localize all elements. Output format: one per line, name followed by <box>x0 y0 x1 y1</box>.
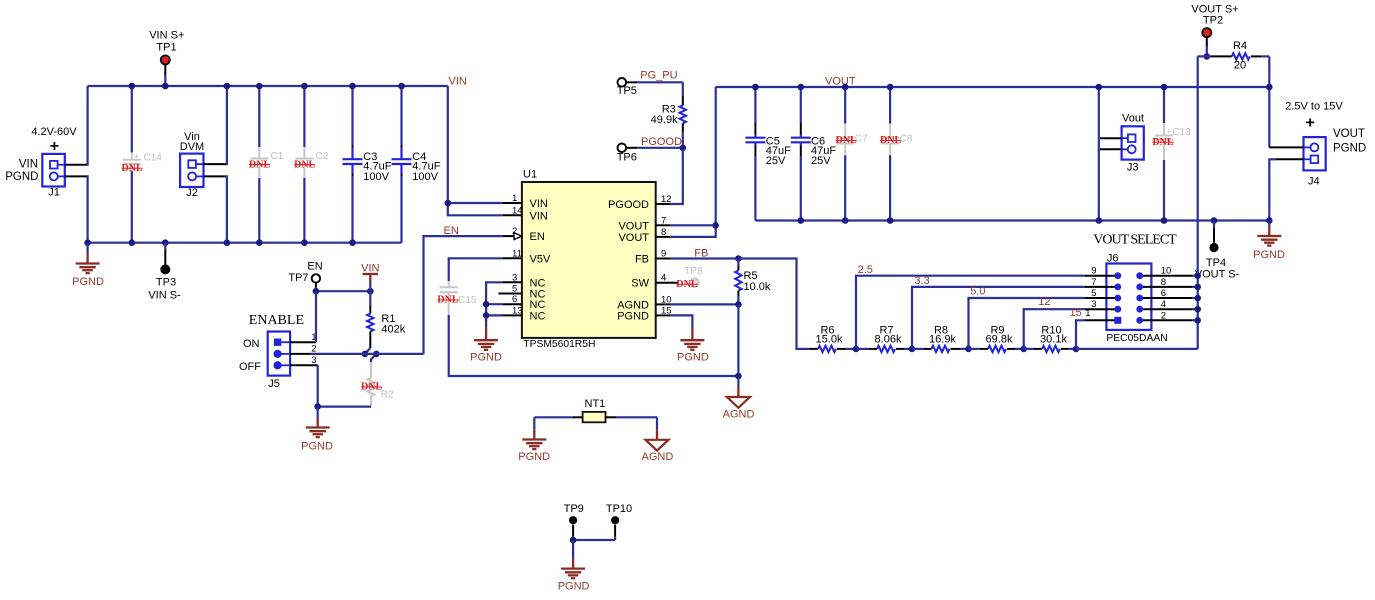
svg-text:J4: J4 <box>1308 175 1320 187</box>
test point TP10 <box>606 503 632 540</box>
svg-text:10.0k: 10.0k <box>744 281 771 293</box>
svg-text:16.9k: 16.9k <box>929 334 956 346</box>
test point TP4 VOUT S- <box>1195 217 1240 281</box>
wire J4 pin1 <box>1269 146 1303 148</box>
svg-text:VIN: VIN <box>530 198 548 210</box>
test point TP3 VIN S- <box>148 239 181 301</box>
J6 pin 7 <box>1085 286 1118 288</box>
wire R5 bottom to AGND rail <box>737 304 739 376</box>
wire R2 jog from EN net <box>371 354 376 362</box>
resistor R3 49.9k <box>651 82 686 148</box>
svg-text:VOUT: VOUT <box>618 232 649 244</box>
U1 pin 5 NC <box>499 293 522 295</box>
svg-text:EN: EN <box>444 225 459 237</box>
svg-text:VOUT SELECT: VOUT SELECT <box>1093 233 1177 248</box>
svg-text:TP10: TP10 <box>606 503 632 515</box>
svg-text:PGND: PGND <box>1333 143 1366 155</box>
ground PGND at U1 pin15 <box>677 328 709 363</box>
resistor R5 10.0k <box>735 259 771 305</box>
wire FB to feedback divider chain <box>738 259 810 349</box>
wire VIN bus drop to U1 <box>448 86 503 215</box>
capacitor C15 (DNL) on V5V <box>437 258 738 376</box>
svg-text:C15: C15 <box>458 295 477 306</box>
svg-text:8: 8 <box>1161 277 1166 288</box>
svg-text:402k: 402k <box>381 323 405 335</box>
svg-text:+: + <box>134 152 139 162</box>
svg-text:1: 1 <box>1085 308 1090 319</box>
resistor R6 15.0k <box>810 325 856 353</box>
resistor R2 (DNL) <box>361 362 394 407</box>
svg-text:8: 8 <box>661 227 666 238</box>
svg-text:Vout: Vout <box>1122 113 1144 125</box>
U1 pin 9 FB <box>656 258 670 260</box>
U1 pin 15 PGND <box>656 314 670 316</box>
svg-text:25V: 25V <box>811 155 831 167</box>
svg-text:2.5: 2.5 <box>858 264 873 276</box>
svg-text:VIN: VIN <box>530 210 548 222</box>
svg-text:7: 7 <box>661 215 666 226</box>
capacitor C13 (DNL) <box>1152 87 1191 221</box>
svg-text:ENABLE: ENABLE <box>249 313 304 328</box>
J6 pin 3 <box>1085 308 1118 310</box>
resistor R9 69.8k <box>969 325 1024 353</box>
wire J3 pin2 to return rail <box>1099 148 1122 150</box>
svg-text:30.1k: 30.1k <box>1040 334 1067 346</box>
svg-text:15: 15 <box>661 305 672 316</box>
svg-text:12: 12 <box>1038 296 1050 308</box>
svg-text:R4: R4 <box>1233 40 1247 52</box>
wire NC pin 6 <box>486 303 502 305</box>
svg-text:PGND: PGND <box>1253 249 1285 261</box>
svg-text:TP2: TP2 <box>1203 15 1223 27</box>
wire J5 pin2 EN line <box>290 353 310 355</box>
svg-text:VOUT: VOUT <box>1333 128 1365 140</box>
J6 pin 1 (square) <box>1085 319 1118 321</box>
svg-text:AGND: AGND <box>642 451 674 463</box>
svg-text:PGND: PGND <box>558 581 590 593</box>
svg-text:VIN S+: VIN S+ <box>149 30 184 42</box>
U1 pin 1 VIN <box>502 202 522 204</box>
capacitor C7 (DNL) <box>836 87 868 221</box>
svg-text:U1: U1 <box>523 169 537 181</box>
wire R1 jog to EN net <box>365 348 370 354</box>
svg-text:DNL: DNL <box>249 159 270 170</box>
svg-text:NC: NC <box>530 310 546 322</box>
power symbol VIN at R1 <box>361 262 379 291</box>
wire VOUT top bus <box>716 86 1270 88</box>
svg-text:7: 7 <box>1091 277 1096 288</box>
svg-text:PGND: PGND <box>5 171 38 183</box>
svg-text:8.06k: 8.06k <box>875 334 902 346</box>
svg-text:9: 9 <box>661 249 666 260</box>
ground AGND at NT1 <box>642 417 674 463</box>
capacitor C6 47uF 25V <box>791 87 837 221</box>
svg-text:13: 13 <box>512 305 523 316</box>
svg-text:DNL: DNL <box>676 279 697 290</box>
svg-text:C1: C1 <box>271 151 284 162</box>
svg-text:TPSM5601R5H: TPSM5601R5H <box>523 339 595 350</box>
svg-text:NC: NC <box>530 277 546 289</box>
svg-text:+: + <box>1306 115 1315 132</box>
wire J2 pin1 to VIN bus <box>204 163 227 165</box>
connector J2 Vin DVM <box>180 131 204 199</box>
connector J4 VOUT/PGND <box>1285 100 1366 187</box>
svg-text:VOUT S-: VOUT S- <box>1195 269 1240 281</box>
wire J1 pin2 to PGND bus <box>65 175 88 177</box>
svg-text:V5V: V5V <box>530 253 551 265</box>
U1 pin 11 V5V <box>502 257 522 259</box>
J6 pin 8 <box>1140 286 1192 288</box>
connector J1 <box>42 154 65 199</box>
capacitor C14 (DNL) <box>122 86 163 243</box>
J6 pin 9 <box>1085 275 1118 277</box>
wire VOUT sense riser (TP2 to J6) <box>1197 56 1199 349</box>
svg-text:9: 9 <box>1091 266 1096 277</box>
capacitor C2 (DNL) <box>294 86 329 243</box>
U1 pin 3 NC <box>502 281 522 283</box>
J6 pin 4 <box>1140 308 1192 310</box>
svg-text:TP6: TP6 <box>617 152 637 164</box>
svg-text:PG_PU: PG_PU <box>640 70 677 82</box>
wire J3 pin1 to VOUT bus <box>1099 137 1122 139</box>
ground PGND at J1 <box>72 243 104 289</box>
test point TP8 (DNL) on SW <box>676 266 703 290</box>
svg-text:PEC05DAAN: PEC05DAAN <box>1106 333 1167 344</box>
svg-text:C13: C13 <box>1172 127 1191 138</box>
test point TP1 VIN S+ <box>149 30 184 86</box>
svg-text:2.5V to 15V: 2.5V to 15V <box>1285 100 1343 112</box>
junction J1 ground <box>84 239 91 246</box>
svg-text:DVM: DVM <box>180 141 204 153</box>
test point TP6 PGOOD <box>617 144 683 164</box>
wire J4 pin2 to return rail <box>1275 158 1304 160</box>
svg-text:NT1: NT1 <box>585 398 606 410</box>
svg-text:3: 3 <box>512 272 517 283</box>
svg-text:PGOOD: PGOOD <box>641 136 682 148</box>
svg-text:5.0: 5.0 <box>970 286 985 298</box>
wire J1 pin1 to VIN bus <box>65 164 88 166</box>
test point TP2 VOUT S+ <box>1191 4 1238 57</box>
svg-text:VOUT: VOUT <box>618 220 649 232</box>
resistor R7 8.06k <box>856 325 912 353</box>
svg-text:TP4: TP4 <box>1206 257 1226 269</box>
svg-text:2: 2 <box>1161 310 1166 321</box>
svg-text:C2: C2 <box>316 151 329 162</box>
J6 pin 10 <box>1140 275 1192 277</box>
svg-text:69.8k: 69.8k <box>986 334 1013 346</box>
svg-text:OFF: OFF <box>239 361 261 373</box>
svg-text:1: 1 <box>512 193 517 204</box>
U1 pin 2 EN with input arrow <box>502 235 514 237</box>
svg-text:+: + <box>1166 127 1171 137</box>
wire R4 right to J4 branch <box>1268 56 1270 147</box>
svg-text:EN: EN <box>530 231 545 243</box>
capacitor C4 4.7uF 100V <box>392 86 441 243</box>
svg-text:PGND: PGND <box>72 276 104 288</box>
wire VIN to U1 pin1 <box>448 202 503 204</box>
svg-text:J3: J3 <box>1127 162 1139 174</box>
ground PGND at J4 <box>1253 221 1285 262</box>
ground PGND at NT1 <box>518 417 550 463</box>
svg-text:DNL: DNL <box>437 295 458 306</box>
svg-text:5: 5 <box>512 284 517 295</box>
resistor R8 16.9k <box>912 325 969 353</box>
svg-text:100V: 100V <box>412 171 438 183</box>
test point TP5 PG_PU <box>617 78 683 97</box>
svg-text:C14: C14 <box>144 152 163 163</box>
svg-text:PGND: PGND <box>518 451 550 463</box>
resistor R4 20 <box>1198 40 1270 72</box>
connector J3 Vout <box>1122 113 1144 174</box>
svg-text:PGND: PGND <box>470 351 502 363</box>
svg-text:TP1: TP1 <box>156 42 176 54</box>
svg-text:VIN: VIN <box>19 159 38 171</box>
svg-text:10: 10 <box>1161 266 1172 277</box>
svg-text:11: 11 <box>512 248 522 259</box>
svg-text:FB: FB <box>635 254 649 266</box>
wire EN riser to U1 pin2 <box>424 236 503 354</box>
svg-text:15.0k: 15.0k <box>816 334 843 346</box>
svg-text:4.2V-60V: 4.2V-60V <box>31 126 77 138</box>
svg-text:TP7: TP7 <box>288 272 308 284</box>
J6 pin 5 <box>1085 297 1118 299</box>
ground PGND at J5 <box>301 407 333 453</box>
svg-text:TP5: TP5 <box>617 85 637 97</box>
svg-text:VIN: VIN <box>361 262 379 274</box>
wire U1 pin8 VOUT <box>670 225 716 237</box>
svg-text:J1: J1 <box>48 187 60 199</box>
svg-text:EN: EN <box>307 260 322 272</box>
wire TP7 node to R1 top <box>316 290 370 292</box>
op-amp substitute: regulator module U1 TPSM5601R5H <box>522 169 656 351</box>
wire TP9-TP10 tie <box>573 539 615 541</box>
capacitor C5 47uF 25V <box>745 87 791 221</box>
node 15 tap <box>1070 307 1086 349</box>
svg-text:TP3: TP3 <box>156 277 176 289</box>
svg-text:25V: 25V <box>766 155 786 167</box>
svg-text:DNL: DNL <box>361 382 382 393</box>
svg-text:C7: C7 <box>855 134 868 145</box>
J6 pin 6 <box>1140 297 1192 299</box>
svg-text:20: 20 <box>1234 60 1246 72</box>
svg-text:AGND: AGND <box>723 409 755 421</box>
svg-text:6: 6 <box>512 294 517 305</box>
capacitor C8 (DNL) <box>880 87 913 221</box>
svg-text:TP9: TP9 <box>564 503 584 515</box>
svg-text:J2: J2 <box>186 187 198 199</box>
svg-text:DNL: DNL <box>880 135 901 146</box>
svg-text:VOUT: VOUT <box>825 76 856 88</box>
wire U1 pin7 VOUT riser <box>670 87 716 225</box>
svg-text:49.9k: 49.9k <box>651 114 678 126</box>
wire NC pins 3-6-13 tie <box>486 282 502 315</box>
svg-text:6: 6 <box>1161 288 1166 299</box>
ground PGND at TP9 <box>558 540 590 593</box>
U1 pin 7 VOUT <box>656 224 670 226</box>
connector J6 PEC05DAAN <box>1106 253 1167 344</box>
ground PGND at NC pins <box>470 315 502 363</box>
ground AGND at R5 <box>723 376 755 421</box>
wire J2 pin2 to PGND bus <box>204 175 227 177</box>
U1 pin 13 NC <box>502 314 522 316</box>
node 12 tap <box>1024 296 1085 349</box>
U1 pin 6 NC <box>502 303 522 305</box>
svg-text:PGND: PGND <box>677 351 709 363</box>
svg-text:VIN: VIN <box>449 76 467 88</box>
connector J5 <box>268 332 290 391</box>
svg-text:4: 4 <box>1161 299 1166 310</box>
node 2.5 tap <box>856 264 1085 349</box>
capacitor C3 4.7uF 100V <box>343 86 392 243</box>
capacitor C1 (DNL) <box>249 86 284 243</box>
svg-text:5: 5 <box>1091 288 1096 299</box>
svg-text:TP8: TP8 <box>684 266 703 277</box>
wire VIN bottom return bus <box>88 242 402 244</box>
wire U1 pin9 FB to R5 <box>670 257 738 259</box>
node 5.0 tap <box>969 286 1086 349</box>
svg-text:14: 14 <box>512 205 523 216</box>
J6 pin 2 <box>1140 319 1192 321</box>
svg-text:SW: SW <box>631 278 649 290</box>
svg-text:C8: C8 <box>900 134 913 145</box>
wire J5 pin3 to PGND <box>290 364 318 366</box>
svg-text:12: 12 <box>661 194 672 205</box>
svg-text:NC: NC <box>530 299 546 311</box>
U1 pin 8 VOUT <box>656 236 670 238</box>
svg-text:4: 4 <box>661 273 666 284</box>
svg-text:R2: R2 <box>381 390 394 401</box>
svg-text:PGND: PGND <box>301 441 333 453</box>
wire U1 pin15 to PGND <box>670 315 692 328</box>
svg-text:DNL: DNL <box>294 159 315 170</box>
wire VOUT bottom return rail <box>755 219 1269 221</box>
wire J5 pin1 to EN node <box>290 341 316 343</box>
wire VIN top bus <box>88 85 448 87</box>
svg-text:+: + <box>50 138 59 155</box>
node 3.3 tap <box>912 275 1085 349</box>
U1 pin 14 VIN <box>502 214 522 216</box>
resistor R10 30.1k <box>1024 325 1076 353</box>
wire PGOOD to U1 pin12 <box>670 148 683 204</box>
svg-text:J5: J5 <box>268 378 280 390</box>
svg-text:100V: 100V <box>363 171 389 183</box>
svg-text:15: 15 <box>1070 307 1082 319</box>
net tie NT1 <box>534 398 657 422</box>
svg-text:10: 10 <box>661 294 672 305</box>
svg-text:3: 3 <box>1091 299 1096 310</box>
svg-text:VIN S-: VIN S- <box>148 290 181 302</box>
U1 pin 4 SW (DNL) <box>656 282 678 284</box>
enable circuit: test point TP7 EN <box>288 260 322 291</box>
svg-text:PGND: PGND <box>617 310 649 322</box>
svg-text:DNL: DNL <box>122 163 143 174</box>
svg-text:2: 2 <box>512 226 517 237</box>
svg-text:3.3: 3.3 <box>914 275 929 287</box>
wire U1 pin10 AGND to R5 bottom <box>670 303 738 305</box>
test point TP9 <box>564 503 584 540</box>
svg-text:DNL: DNL <box>1152 137 1173 148</box>
U1 pin 12 PGOOD <box>656 203 670 205</box>
wire chain end to sense riser <box>1076 348 1198 350</box>
U1 pin 10 AGND <box>656 303 670 305</box>
svg-text:PGOOD: PGOOD <box>608 199 649 211</box>
svg-text:ON: ON <box>243 338 260 350</box>
resistor R1 402k <box>367 291 406 348</box>
